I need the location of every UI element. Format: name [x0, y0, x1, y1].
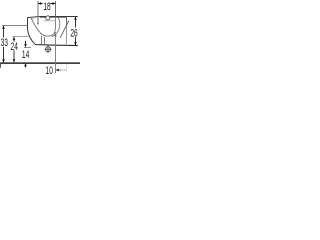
svg-text:14: 14 — [22, 48, 29, 60]
svg-text:26: 26 — [70, 27, 77, 39]
svg-text:18: 18 — [43, 0, 50, 12]
svg-text:10: 10 — [46, 64, 53, 76]
svg-text:33: 33 — [1, 36, 8, 48]
svg-text:24: 24 — [11, 40, 18, 52]
